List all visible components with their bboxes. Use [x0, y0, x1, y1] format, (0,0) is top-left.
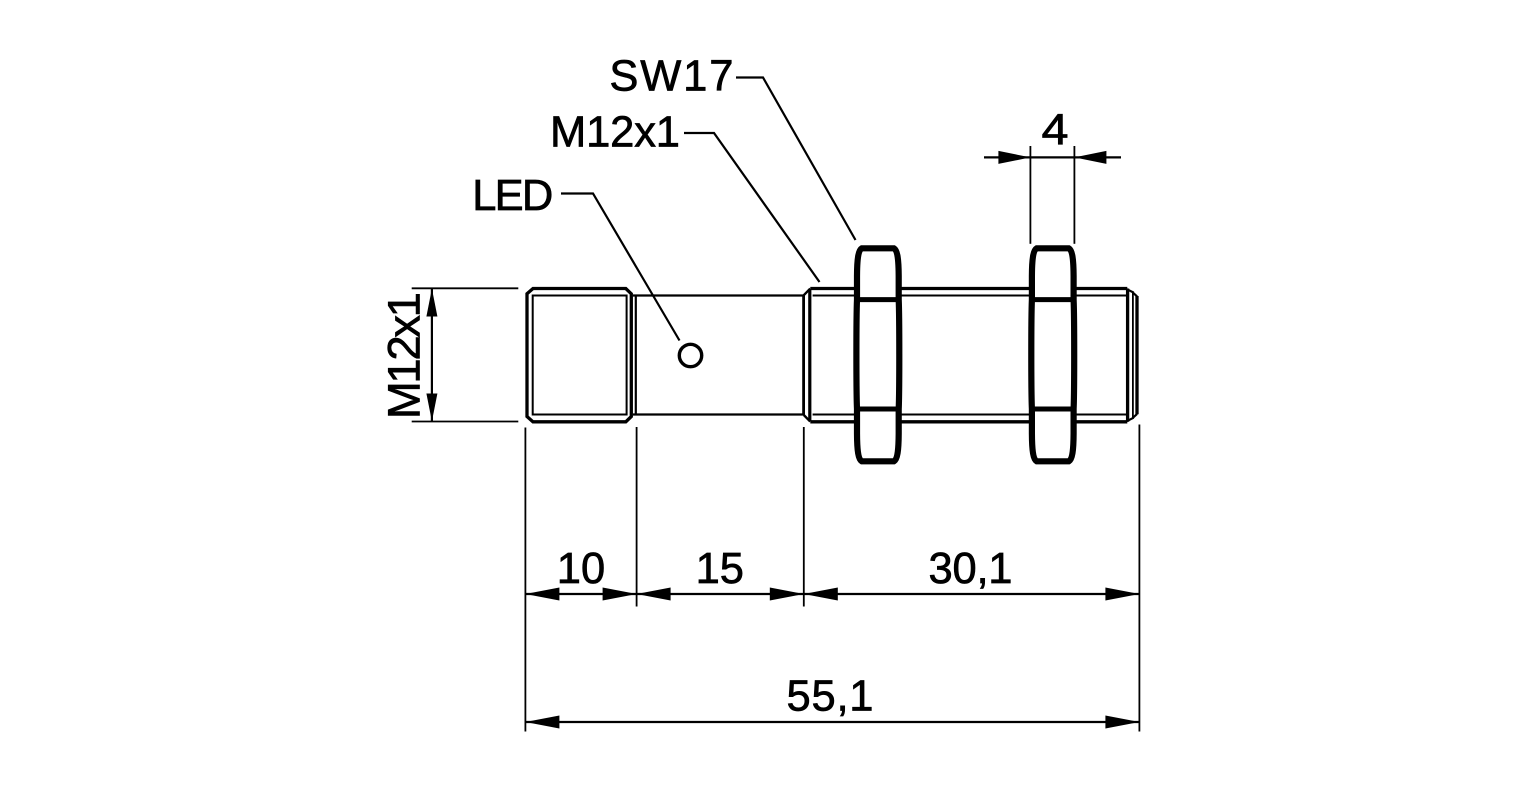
extension line bottom at x=1139	[1138, 425, 1140, 732]
dimension line 4	[984, 156, 1121, 158]
dimension line row 1	[525, 593, 1139, 595]
arrowhead 55,1 left	[525, 716, 559, 729]
barrel left chamfer bottom	[804, 415, 810, 422]
extension line bottom (M12 vertical dimension)	[412, 421, 519, 423]
barrel thread minor top line	[813, 295, 1127, 297]
leader line SW17	[736, 78, 856, 241]
connector thread inner rectangle (thread minor lines)	[533, 296, 627, 415]
middle tube bottom line	[633, 413, 804, 415]
extension line top (M12 vertical dimension)	[412, 287, 519, 289]
barrel outer bottom line	[810, 420, 1127, 423]
end cap outer face	[1135, 296, 1138, 414]
end cap chamfer bottom 1	[1126, 418, 1134, 422]
arrowhead 15 left	[637, 588, 671, 601]
end cap chamfer top 2	[1133, 292, 1137, 296]
svg-text:M12x1: M12x1	[550, 108, 680, 156]
end cap chamfer bottom 2	[1133, 414, 1137, 418]
hex nut 2 upper facet line	[1029, 297, 1076, 302]
barrel left chamfer top	[804, 289, 810, 296]
svg-text:4: 4	[1042, 107, 1069, 155]
hex nut 1 upper facet line	[854, 297, 901, 302]
barrel thread minor bottom line	[813, 414, 1127, 416]
dimension line row 2 (overall)	[525, 721, 1139, 723]
arrowhead 4 right (pointing left)	[1074, 151, 1106, 164]
middle tube top line	[633, 294, 804, 296]
connector thread section (left box) outer outline	[527, 289, 631, 422]
extension line 4-dim left	[1029, 146, 1031, 244]
dimension line M12x1 vertical	[431, 289, 433, 422]
extension line 4-dim right	[1073, 146, 1075, 244]
svg-text:10: 10	[557, 545, 605, 593]
end cap chamfer top 1	[1126, 289, 1134, 293]
end cap inner edge	[1132, 293, 1134, 418]
extension line bottom at x=636	[636, 427, 638, 607]
arrowhead 15 right	[770, 588, 804, 601]
arrowhead 30,1 left	[804, 588, 838, 601]
extension line bottom at x=804	[803, 427, 805, 607]
leader line LED	[561, 194, 680, 341]
arrowhead 10 left	[525, 588, 559, 601]
svg-text:SW17: SW17	[609, 53, 733, 101]
LED indicator circle	[679, 344, 701, 366]
arrowhead 4 left (pointing right)	[998, 151, 1030, 164]
leader line M12x1 (top)	[684, 133, 820, 282]
svg-text:55,1: 55,1	[787, 673, 874, 721]
hex nut 1 lower facet line	[854, 407, 901, 412]
arrowhead down	[426, 394, 437, 422]
arrowhead 30,1 right	[1105, 588, 1139, 601]
barrel right end face	[1126, 289, 1129, 422]
extension line bottom at x=525	[524, 428, 526, 732]
hex nut 2 lower facet line	[1029, 407, 1076, 412]
barrel left end face	[808, 289, 811, 421]
svg-text:30,1: 30,1	[929, 545, 1013, 593]
hex nut 1 (SW17) white fill and outline	[856, 248, 899, 461]
arrowhead 10 right	[603, 588, 637, 601]
svg-text:15: 15	[696, 545, 744, 593]
svg-text:LED: LED	[472, 172, 553, 220]
middle tube right end face	[802, 295, 805, 415]
barrel outer top line	[810, 287, 1127, 290]
arrowhead 55,1 right	[1105, 716, 1139, 729]
middle tube left end edge	[635, 296, 637, 415]
arrowhead up	[426, 289, 437, 317]
hex nut 2 white fill and outline	[1031, 248, 1074, 461]
svg-text:M12x1: M12x1	[379, 292, 430, 419]
